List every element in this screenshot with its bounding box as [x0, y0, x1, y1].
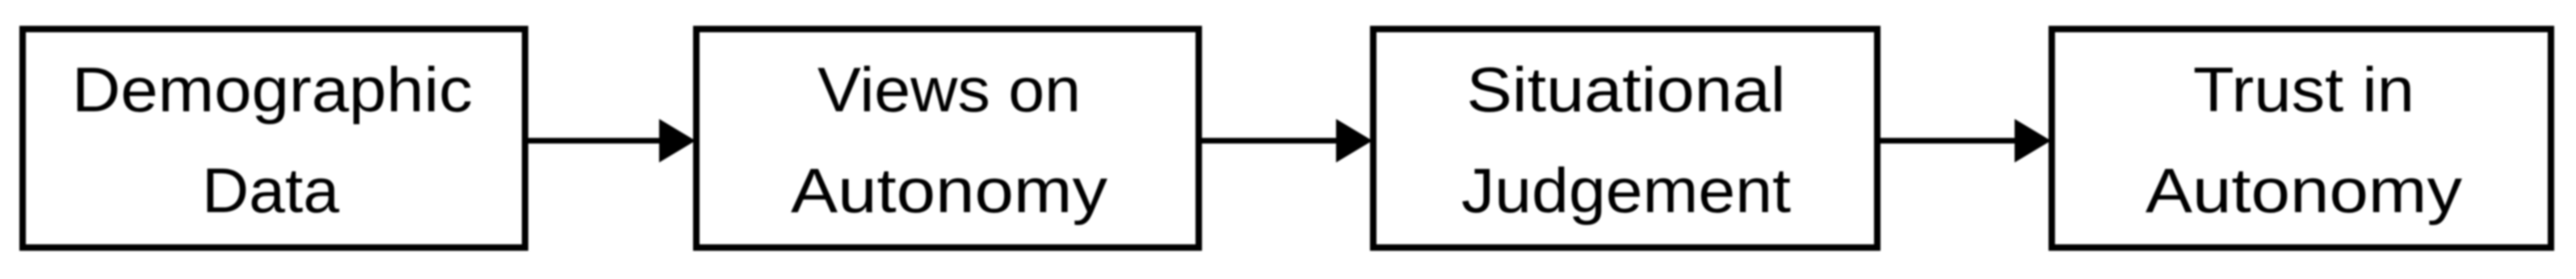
svg-text:Autonomy: Autonomy: [2145, 155, 2462, 226]
svg-text:Demographic: Demographic: [72, 54, 473, 125]
svg-text:Situational: Situational: [1467, 54, 1786, 125]
svg-text:Data: Data: [202, 155, 340, 226]
svg-text:Autonomy: Autonomy: [791, 155, 1107, 226]
svg-text:Views on: Views on: [817, 54, 1081, 125]
svg-text:Judgement: Judgement: [1461, 155, 1791, 226]
svg-text:Trust in: Trust in: [2193, 54, 2414, 125]
